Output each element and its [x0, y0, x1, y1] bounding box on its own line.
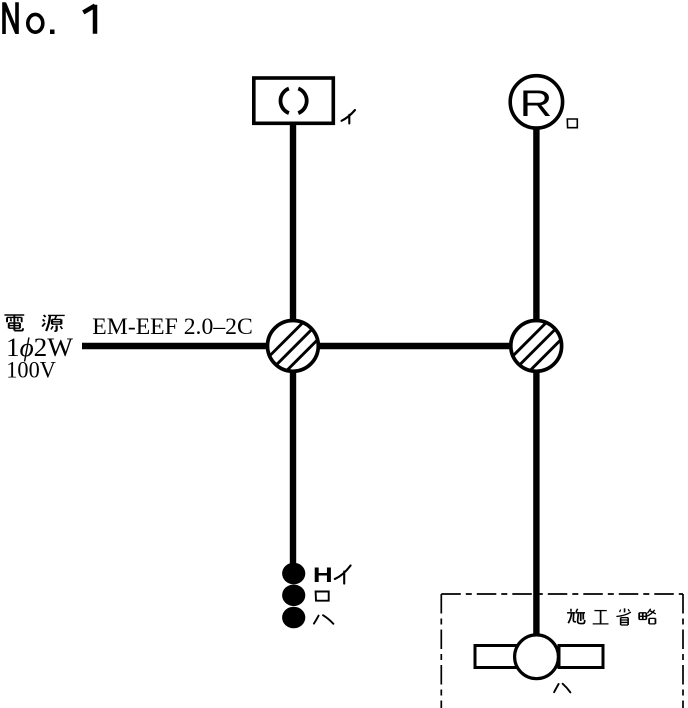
svg-text:H: H: [313, 564, 333, 587]
svg-text:R: R: [520, 82, 553, 124]
svg-text:EM-EEF 2.0–2C: EM-EEF 2.0–2C: [92, 314, 252, 339]
svg-text:100V: 100V: [6, 358, 56, 384]
